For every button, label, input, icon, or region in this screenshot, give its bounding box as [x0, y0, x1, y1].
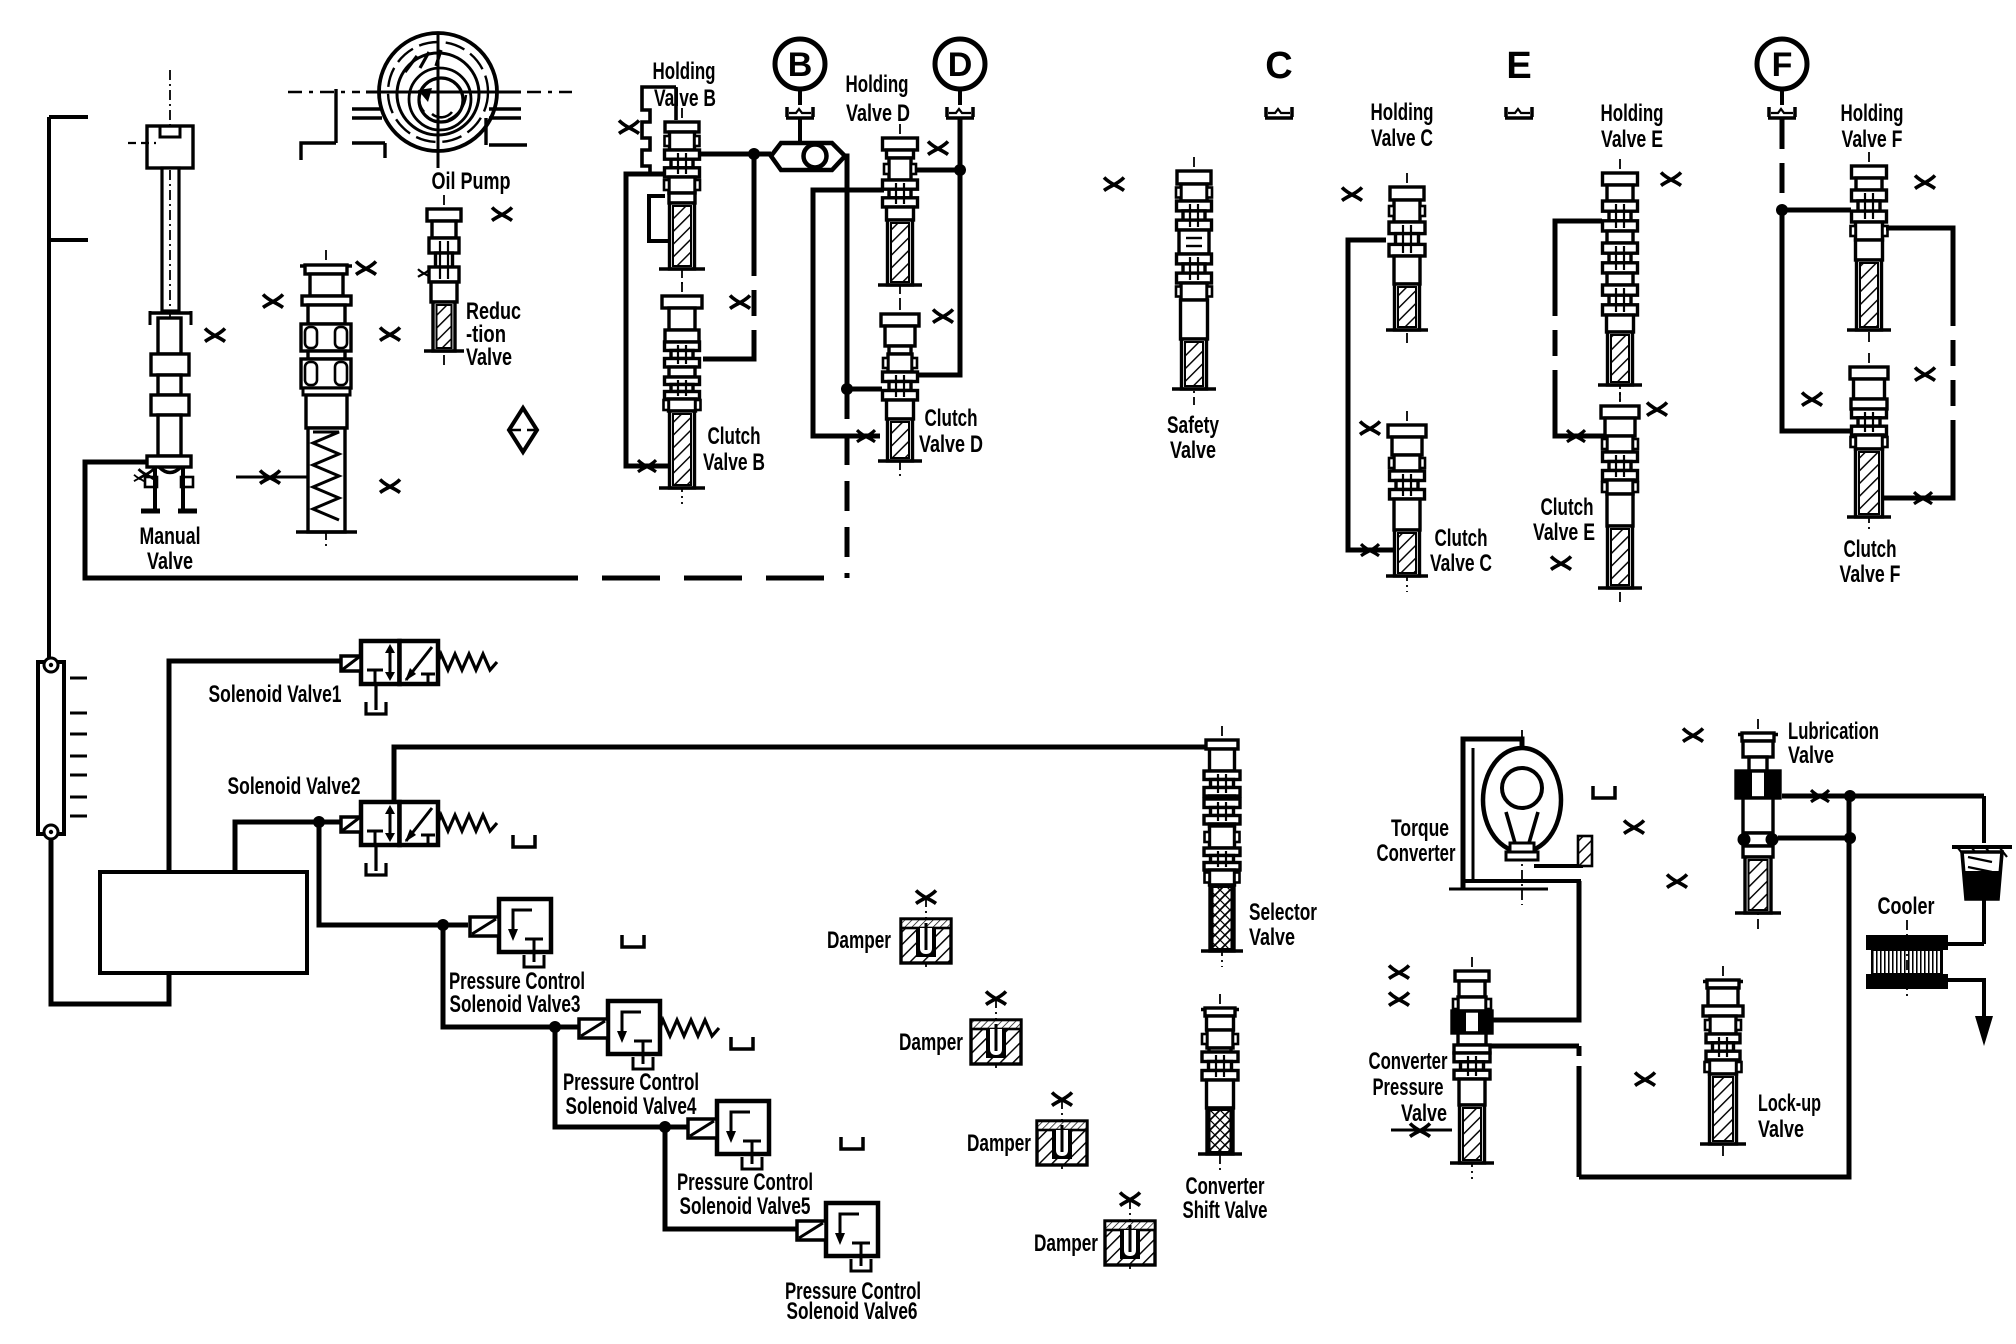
orifice — [1915, 368, 1935, 381]
oil filter — [1952, 847, 2012, 899]
exhaust bracket — [731, 1037, 753, 1049]
holding valve E — [1598, 159, 1642, 401]
svg-text:E: E — [1506, 45, 1531, 87]
pressure control solenoid valve 6 — [797, 1203, 878, 1271]
wire holding valve B left loop — [626, 174, 671, 472]
svg-text:Clutch: Clutch — [708, 423, 761, 450]
svg-text:Valve E: Valve E — [1533, 519, 1595, 546]
label selector valve — [1249, 899, 1317, 951]
torque converter — [1463, 730, 1561, 905]
svg-text:Valve: Valve — [466, 344, 512, 371]
wire pcsv3 to pcsv4 — [443, 925, 579, 1033]
orifice — [380, 328, 400, 341]
label oil pump — [432, 168, 511, 195]
wire manual valve drain — [85, 462, 520, 578]
connector E — [1506, 45, 1531, 87]
orifice right of clutch valve D — [933, 310, 953, 323]
connector F — [1757, 39, 1807, 89]
holding valve F — [1847, 152, 1891, 346]
svg-text:Valve: Valve — [1788, 742, 1834, 769]
wire solenoid valve 2 supply — [235, 822, 342, 872]
wire lubrication to filter — [1782, 790, 1984, 843]
svg-text:Holding: Holding — [653, 58, 716, 85]
svg-text:Shift Valve: Shift Valve — [1183, 1197, 1268, 1224]
pressure control solenoid valve 3 — [470, 899, 551, 967]
safety valve — [1172, 157, 1216, 405]
orifice — [1104, 178, 1124, 191]
orifice left of holding valve B — [619, 121, 639, 134]
label safety valve — [1167, 412, 1219, 464]
clutch valve B — [659, 282, 705, 504]
clutch valve F — [1847, 353, 1891, 533]
tank under F — [1768, 89, 1796, 118]
damper 4 — [1105, 1193, 1155, 1272]
exhaust bracket — [1593, 786, 1615, 798]
svg-text:Valve: Valve — [147, 548, 193, 575]
holding valve D — [878, 124, 922, 301]
wire torque converter base — [1449, 881, 1581, 889]
wire check valve to node D — [841, 156, 882, 395]
svg-text:Converter: Converter — [1377, 840, 1456, 867]
wire dashed node D to drain line — [845, 389, 850, 578]
svg-text:Valve: Valve — [1170, 437, 1216, 464]
label clutch valve F — [1840, 536, 1901, 588]
lubrication valve — [1735, 719, 1781, 929]
label holding valve D — [846, 71, 911, 127]
svg-text:Damper: Damper — [1034, 1230, 1098, 1257]
svg-text:Valve B: Valve B — [654, 85, 716, 112]
orifice on B branch — [730, 296, 750, 309]
connector C — [1265, 45, 1292, 87]
wire left supply rail — [49, 117, 88, 662]
svg-text:Holding: Holding — [846, 71, 909, 98]
label converter pressure valve — [1369, 1048, 1448, 1127]
label holding valve B — [653, 58, 717, 112]
svg-text:Torque: Torque — [1391, 815, 1449, 842]
orifice — [492, 208, 512, 221]
svg-text:Holding: Holding — [1841, 100, 1904, 127]
svg-text:C: C — [1265, 45, 1292, 87]
label solenoid valve 2 — [228, 773, 361, 800]
exhaust bracket — [513, 835, 535, 847]
orifice pair — [1389, 966, 1409, 1006]
pressure control solenoid valve 5 — [688, 1101, 769, 1169]
damper 3 — [1037, 1093, 1087, 1172]
label pcsv6 — [785, 1278, 921, 1325]
wire solenoid valve 2 output — [394, 747, 1206, 802]
orifice right of holding valve D — [928, 142, 948, 155]
svg-text:Valve C: Valve C — [1430, 550, 1492, 577]
svg-text:Valve C: Valve C — [1371, 125, 1433, 152]
orifice — [205, 329, 225, 342]
oil pump — [288, 33, 572, 168]
label damper 3 — [967, 1130, 1031, 1157]
label solenoid valve 1 — [209, 681, 342, 708]
svg-text:Valve: Valve — [1401, 1100, 1447, 1127]
orifice — [263, 295, 283, 308]
tank under D — [946, 89, 974, 118]
orifice — [1624, 821, 1644, 834]
wire cpv to torque converter — [1490, 881, 1579, 1020]
orifice at manual valve — [139, 469, 154, 479]
svg-text:Valve E: Valve E — [1601, 126, 1663, 153]
svg-text:Clutch: Clutch — [1844, 536, 1897, 563]
svg-text:Lubrication: Lubrication — [1788, 718, 1879, 745]
label cooler — [1878, 893, 1935, 920]
wire to pressure control chain — [313, 816, 468, 931]
orifice — [1360, 422, 1380, 435]
label pcsv4 — [563, 1069, 699, 1120]
label damper 2 — [899, 1029, 963, 1056]
orifice — [0, 0, 1, 1]
orifice — [1661, 173, 1681, 186]
label pcsv3 — [449, 968, 585, 1018]
svg-text:Pressure Control: Pressure Control — [677, 1169, 813, 1196]
wire B to check valve — [798, 119, 802, 146]
label clutch valve B — [703, 423, 765, 476]
label holding valve F — [1841, 100, 1904, 153]
connector B — [775, 39, 825, 89]
orifice — [1647, 403, 1667, 416]
wire converter pressure valve orifice — [1391, 1124, 1452, 1137]
label pcsv5 — [677, 1169, 813, 1220]
lock-up valve — [1700, 966, 1746, 1160]
orifice — [1802, 393, 1822, 406]
svg-text:Clutch: Clutch — [925, 405, 978, 432]
oil pan box — [100, 872, 307, 973]
wire holding valve D left branch — [813, 190, 884, 442]
svg-text:Valve D: Valve D — [846, 100, 910, 127]
wire holding valve E to clutch valve E — [1555, 221, 1609, 442]
label damper 1 — [827, 927, 891, 954]
wire D to valves — [913, 119, 966, 375]
svg-text:Oil Pump: Oil Pump — [432, 168, 511, 195]
svg-text:F: F — [1772, 46, 1793, 84]
label clutch valve D — [919, 405, 983, 458]
wire long dashed drain line — [520, 576, 846, 581]
svg-text:Converter: Converter — [1369, 1048, 1448, 1075]
selector valve — [1201, 726, 1243, 967]
svg-text:D: D — [948, 46, 973, 84]
label torque converter — [1377, 815, 1456, 867]
svg-text:Solenoid Valve5: Solenoid Valve5 — [680, 1193, 811, 1220]
wire holding valve F right branch — [1881, 228, 1953, 504]
orifice — [1667, 875, 1687, 888]
svg-text:B: B — [788, 46, 813, 84]
label damper 4 — [1034, 1230, 1098, 1257]
svg-text:Converter: Converter — [1186, 1173, 1265, 1200]
clutch valve E — [1598, 392, 1642, 604]
strainer — [38, 658, 87, 839]
svg-text:Clutch: Clutch — [1435, 525, 1488, 552]
svg-text:Solenoid Valve2: Solenoid Valve2 — [228, 773, 361, 800]
check valve — [771, 143, 845, 170]
manual valve — [128, 70, 197, 511]
tank under B — [786, 89, 814, 118]
tank under E — [1505, 107, 1533, 118]
wire check valve to holding valve B — [699, 148, 771, 160]
svg-text:Valve D: Valve D — [919, 431, 983, 458]
orifice — [1683, 729, 1703, 742]
converter shift valve — [1198, 994, 1242, 1170]
wire pilot valve orifice — [236, 471, 308, 484]
clutch valve C — [1386, 411, 1428, 592]
svg-text:Damper: Damper — [967, 1130, 1031, 1157]
svg-text:Cooler: Cooler — [1878, 893, 1935, 920]
converter pressure valve — [1450, 957, 1494, 1179]
svg-text:Valve B: Valve B — [703, 449, 765, 476]
label lock-up valve — [1758, 1090, 1821, 1143]
connector D — [935, 39, 985, 89]
label holding valve C — [1371, 99, 1434, 152]
wire F to holding valve F — [1782, 208, 1851, 213]
orifice — [1342, 188, 1362, 201]
reduction valve — [418, 195, 464, 367]
svg-text:Valve: Valve — [1758, 1116, 1804, 1143]
holding valve B — [642, 87, 705, 285]
solenoid valve 1 — [341, 641, 497, 714]
svg-text:Valve F: Valve F — [1840, 561, 1901, 588]
wire torque converter out — [1534, 836, 1592, 866]
damper 1 — [901, 891, 951, 970]
holding valve C — [1386, 173, 1428, 346]
pilot valve — [296, 250, 357, 548]
wire to clutch valve B mid — [0, 0, 1, 1]
orifice — [380, 480, 400, 493]
svg-text:Valve F: Valve F — [1842, 126, 1903, 153]
pressure control solenoid valve 4 — [579, 1001, 719, 1069]
svg-text:Solenoid Valve4: Solenoid Valve4 — [566, 1093, 697, 1120]
svg-text:Valve: Valve — [1249, 924, 1295, 951]
cooler — [1866, 920, 1948, 1000]
solenoid valve 2 — [341, 802, 497, 875]
diamond symbol — [509, 408, 537, 452]
wire filter to cooler — [1948, 899, 1984, 944]
svg-text:Pressure Control: Pressure Control — [563, 1069, 699, 1096]
svg-text:Solenoid Valve6: Solenoid Valve6 — [787, 1298, 918, 1325]
exhaust bracket — [841, 1137, 863, 1149]
wire pcsv5 to pcsv6 — [665, 1127, 796, 1229]
exhaust bracket — [622, 935, 644, 947]
clutch valve D — [878, 300, 922, 477]
svg-text:Damper: Damper — [827, 927, 891, 954]
orifice — [1551, 557, 1571, 570]
svg-text:Holding: Holding — [1601, 100, 1664, 127]
label lubrication valve — [1788, 718, 1879, 769]
wire node B to clutch valve B — [703, 154, 754, 359]
wire F to clutch valve F — [1782, 210, 1851, 431]
wire F down — [1776, 119, 1788, 216]
label converter shift valve — [1183, 1173, 1268, 1224]
tank under C — [1265, 107, 1293, 118]
svg-text:Manual: Manual — [140, 523, 201, 550]
svg-text:Safety: Safety — [1167, 412, 1219, 439]
wire pcsv4 to pcsv5 — [555, 1027, 688, 1133]
label holding valve E — [1601, 100, 1664, 153]
svg-text:Solenoid Valve1: Solenoid Valve1 — [209, 681, 342, 708]
wire supply to solenoid valve 1 — [169, 661, 341, 872]
label clutch valve C — [1430, 525, 1492, 577]
wire strainer to oil pan box — [51, 839, 169, 1004]
svg-text:Selector: Selector — [1249, 899, 1317, 926]
wire cooler outlet — [1948, 980, 1993, 1046]
label reduction valve — [466, 298, 521, 371]
orifice — [1915, 176, 1935, 189]
svg-text:Pressure: Pressure — [1373, 1074, 1444, 1101]
orifice — [1635, 1073, 1655, 1086]
svg-text:Solenoid Valve3: Solenoid Valve3 — [450, 991, 581, 1018]
orifice — [356, 262, 376, 275]
damper 2 — [971, 992, 1021, 1071]
svg-text:Holding: Holding — [1371, 99, 1434, 126]
label manual valve — [140, 523, 201, 575]
svg-text:Lock-up: Lock-up — [1758, 1090, 1821, 1117]
svg-text:Damper: Damper — [899, 1029, 963, 1056]
wire lubrication second port — [1778, 832, 1856, 844]
label clutch valve E — [1533, 494, 1595, 546]
wire holding valve C to clutch valve C — [1348, 240, 1396, 556]
wire main return line — [1579, 796, 1849, 1177]
wire holding valve B inner loop — [649, 196, 670, 241]
svg-text:Clutch: Clutch — [1541, 494, 1594, 521]
wire cpv to return — [1490, 1046, 1579, 1177]
